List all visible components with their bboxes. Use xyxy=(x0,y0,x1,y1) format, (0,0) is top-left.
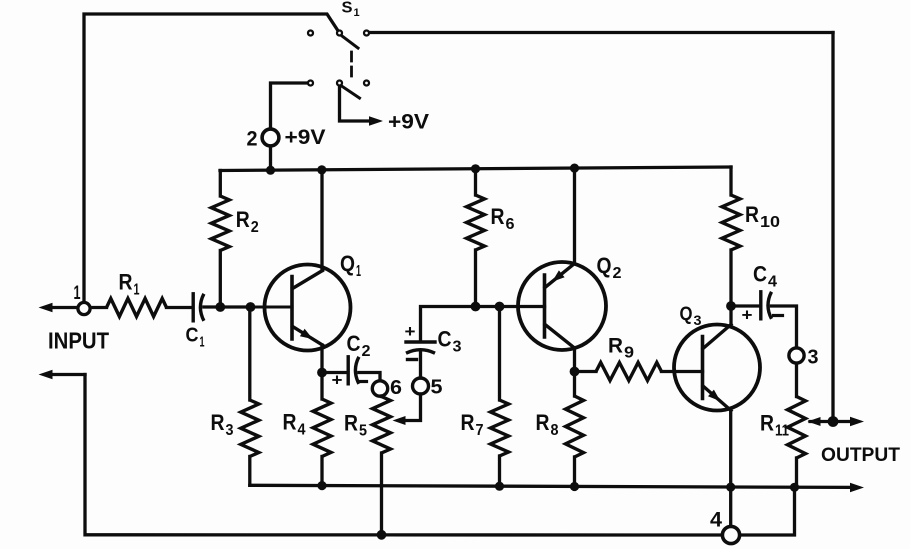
svg-text:3: 3 xyxy=(808,347,819,369)
svg-text:8: 8 xyxy=(551,422,559,439)
label C4 xyxy=(753,262,777,291)
plus sign C2 xyxy=(332,371,343,390)
resistor R1 xyxy=(107,299,167,317)
wire ground rail xyxy=(250,485,850,487)
wire input node 1 to switch S1 (top-left loop) xyxy=(84,14,338,302)
label R1 xyxy=(119,270,140,299)
wire C2 to node 6 xyxy=(359,373,380,382)
resistor R9 xyxy=(575,363,703,381)
label C1 xyxy=(186,325,205,351)
minus sign C4 xyxy=(774,314,783,317)
node 1 terminal xyxy=(78,302,90,314)
junction Q1 collector/rail xyxy=(317,165,326,174)
capacitor C4 xyxy=(731,292,772,319)
output arrow xyxy=(850,417,864,426)
transistor Q1 xyxy=(251,265,351,351)
junction R7/ground xyxy=(495,482,504,491)
resistor R11 (pot) xyxy=(788,363,806,487)
svg-text:7: 7 xyxy=(476,422,484,439)
node 2 terminal xyxy=(262,129,279,146)
wire Q3 collector riser xyxy=(729,306,732,325)
svg-text:3: 3 xyxy=(694,312,702,328)
wire Q1 emitter to R4/C2 node xyxy=(320,345,323,373)
junction R7/base wire xyxy=(495,302,505,312)
svg-text:+: + xyxy=(742,306,753,325)
label R11 xyxy=(760,411,789,440)
svg-text:C: C xyxy=(186,325,199,347)
label 3 xyxy=(808,347,819,369)
label Q2 xyxy=(597,253,622,282)
lower input return arrow xyxy=(39,370,86,379)
node 6 terminal xyxy=(372,381,387,396)
svg-text:R: R xyxy=(461,410,475,435)
svg-text:R: R xyxy=(760,411,774,436)
svg-text:Q: Q xyxy=(597,253,612,278)
svg-text:INPUT: INPUT xyxy=(48,328,109,354)
wire Q1 collector riser xyxy=(320,170,323,271)
label OUTPUT xyxy=(821,444,900,466)
svg-text:C: C xyxy=(438,327,452,352)
junction Q3 emitter/ground xyxy=(726,483,735,492)
svg-text:R: R xyxy=(745,202,759,227)
switch S1 pole-2 common contact xyxy=(337,81,342,86)
plus sign C3 xyxy=(405,322,416,341)
resistor R5 (pot) xyxy=(373,396,391,535)
svg-text:1: 1 xyxy=(134,282,140,299)
junction node4 return/ground xyxy=(790,483,799,492)
junction Q2 collector/R8/R9 xyxy=(570,367,580,377)
svg-text:R: R xyxy=(119,270,133,295)
svg-text:OUTPUT: OUTPUT xyxy=(821,444,900,466)
junction Q1 emitter/C2/R4 xyxy=(317,368,327,378)
label Q3 xyxy=(680,304,702,328)
switch S1 pole-2 open contact xyxy=(364,81,369,86)
wire Q2 emitter riser xyxy=(573,168,576,263)
svg-text:6: 6 xyxy=(506,216,515,233)
minus sign C3 xyxy=(408,358,417,361)
label 2 xyxy=(247,128,258,151)
capacitor C3 xyxy=(406,342,435,353)
label R4 xyxy=(283,410,306,439)
svg-text:1: 1 xyxy=(354,7,360,19)
label 4 xyxy=(710,509,722,532)
wire R1 to C1 xyxy=(167,306,191,309)
svg-text:1: 1 xyxy=(200,334,205,351)
svg-text:10: 10 xyxy=(760,214,780,231)
minus sign C2 xyxy=(360,380,367,383)
label R3 xyxy=(211,410,234,439)
label C2 xyxy=(347,331,371,360)
svg-text:11: 11 xyxy=(775,423,789,440)
switch S1 pole-2 contact to +9V node xyxy=(308,81,313,86)
svg-text:R: R xyxy=(536,410,550,435)
wire right feedback rail xyxy=(831,33,834,422)
junction R10/C4/Q3 collector xyxy=(726,301,736,311)
resistor R2 xyxy=(211,171,229,308)
svg-text:9: 9 xyxy=(624,345,634,362)
resistor R7 xyxy=(491,307,509,487)
switch S1 pole-2 lever xyxy=(342,87,359,99)
junction R5/bottom line xyxy=(377,530,387,540)
wire C4 to node 3 xyxy=(771,306,796,348)
transistor Q3 xyxy=(674,325,760,411)
svg-text:R: R xyxy=(283,410,297,435)
wire node1 to R1 xyxy=(91,306,106,309)
label R8 xyxy=(536,410,559,439)
wire S1 pole-2 contact to node 2 xyxy=(271,83,307,129)
transistor Q2 xyxy=(518,262,606,350)
node 4 terminal xyxy=(722,526,739,543)
svg-text:C: C xyxy=(347,331,361,356)
wire C3 to node 5 xyxy=(419,353,422,379)
svg-text:4: 4 xyxy=(710,509,722,532)
wire bottom return line xyxy=(85,375,722,536)
label +9V at node 2 xyxy=(285,126,326,149)
label R10 xyxy=(745,202,780,231)
label R9 xyxy=(608,335,634,362)
svg-text:S: S xyxy=(342,0,353,17)
wire +9V supply rail xyxy=(220,167,731,171)
wire Q2 collector to R8/R9 node xyxy=(573,348,576,372)
svg-text:R: R xyxy=(608,335,623,358)
wire base node to Q2 xyxy=(476,305,545,308)
label INPUT xyxy=(48,328,109,354)
svg-text:1: 1 xyxy=(356,263,361,280)
wire node 2 to supply rail xyxy=(269,147,272,171)
wire C3 top to R6/R7 node xyxy=(421,307,476,342)
resistor R8 xyxy=(566,372,584,487)
junction R6/C3 xyxy=(471,302,481,312)
label R5 xyxy=(344,411,367,440)
label Q1 xyxy=(340,251,361,280)
svg-text:R: R xyxy=(211,410,225,435)
wire S1 output to right rail xyxy=(370,31,833,34)
svg-text:2: 2 xyxy=(247,128,258,151)
junction R8/ground xyxy=(570,482,579,491)
svg-text:R: R xyxy=(344,411,358,436)
svg-text:+9V: +9V xyxy=(285,126,326,149)
switch S1 pole-1 output contact xyxy=(364,31,369,36)
switch S1 pole-1 common contact xyxy=(337,31,342,36)
capacitor C1 xyxy=(193,294,204,321)
node 5 terminal xyxy=(413,378,429,394)
switch S1 gang link dashed xyxy=(350,52,353,80)
svg-text:4: 4 xyxy=(768,274,777,291)
svg-text:1: 1 xyxy=(74,283,81,304)
label R2 xyxy=(236,207,259,236)
svg-text:5: 5 xyxy=(431,377,443,399)
junction C1/R2 xyxy=(215,302,225,312)
resistor R4 xyxy=(313,373,331,486)
junction R4/ground xyxy=(317,481,326,490)
ground rail arrow xyxy=(850,483,864,492)
svg-text:Q: Q xyxy=(680,304,693,325)
svg-text:6: 6 xyxy=(390,377,402,399)
label 6 xyxy=(390,377,402,399)
wire Q3 emitter to ground rail and node 4 xyxy=(729,411,732,527)
label S1 xyxy=(342,0,360,19)
resistor R3 xyxy=(241,307,259,485)
capacitor C2 xyxy=(327,357,359,384)
svg-text:4: 4 xyxy=(298,422,306,439)
plus sign C4 xyxy=(742,306,753,325)
svg-text:3: 3 xyxy=(453,339,462,356)
label C3 xyxy=(438,327,462,356)
label 5 xyxy=(431,377,443,399)
svg-text:3: 3 xyxy=(226,422,234,439)
resistor R6 xyxy=(467,169,485,307)
wire node 4 to ground rail xyxy=(740,487,795,535)
switch S1 pole-1 lever xyxy=(342,36,358,48)
svg-text:+: + xyxy=(332,371,343,390)
svg-text:5: 5 xyxy=(359,423,367,440)
svg-text:C: C xyxy=(753,262,767,287)
junction node2/rail xyxy=(266,166,275,175)
switch S1 pole-1 open contact xyxy=(308,31,313,36)
svg-text:2: 2 xyxy=(362,343,371,360)
svg-text:+9V: +9V xyxy=(388,111,429,134)
label R7 xyxy=(461,410,484,439)
svg-text:2: 2 xyxy=(251,219,259,236)
junction Q2 emitter/rail xyxy=(570,164,579,173)
wire S1 pole-2 common to +9V arrow xyxy=(340,87,384,126)
svg-text:R: R xyxy=(491,204,505,229)
input arrow xyxy=(39,303,77,312)
junction feedback rail/output xyxy=(828,416,839,427)
svg-text:R: R xyxy=(236,207,250,232)
wire C1 to Q1 base node xyxy=(204,305,251,308)
svg-text:+: + xyxy=(405,322,416,341)
label 1 xyxy=(74,283,81,304)
resistor R10 xyxy=(722,167,740,306)
junction R3/base xyxy=(246,302,256,312)
svg-text:Q: Q xyxy=(340,251,355,276)
node 3 terminal xyxy=(789,348,804,363)
label +9V at switch xyxy=(388,111,429,134)
svg-text:2: 2 xyxy=(613,265,622,282)
label R6 xyxy=(491,204,515,233)
wire R11 wiper to output xyxy=(808,417,856,426)
wire node 5 to R5 wiper xyxy=(393,394,421,425)
junction R6/rail xyxy=(471,164,480,173)
